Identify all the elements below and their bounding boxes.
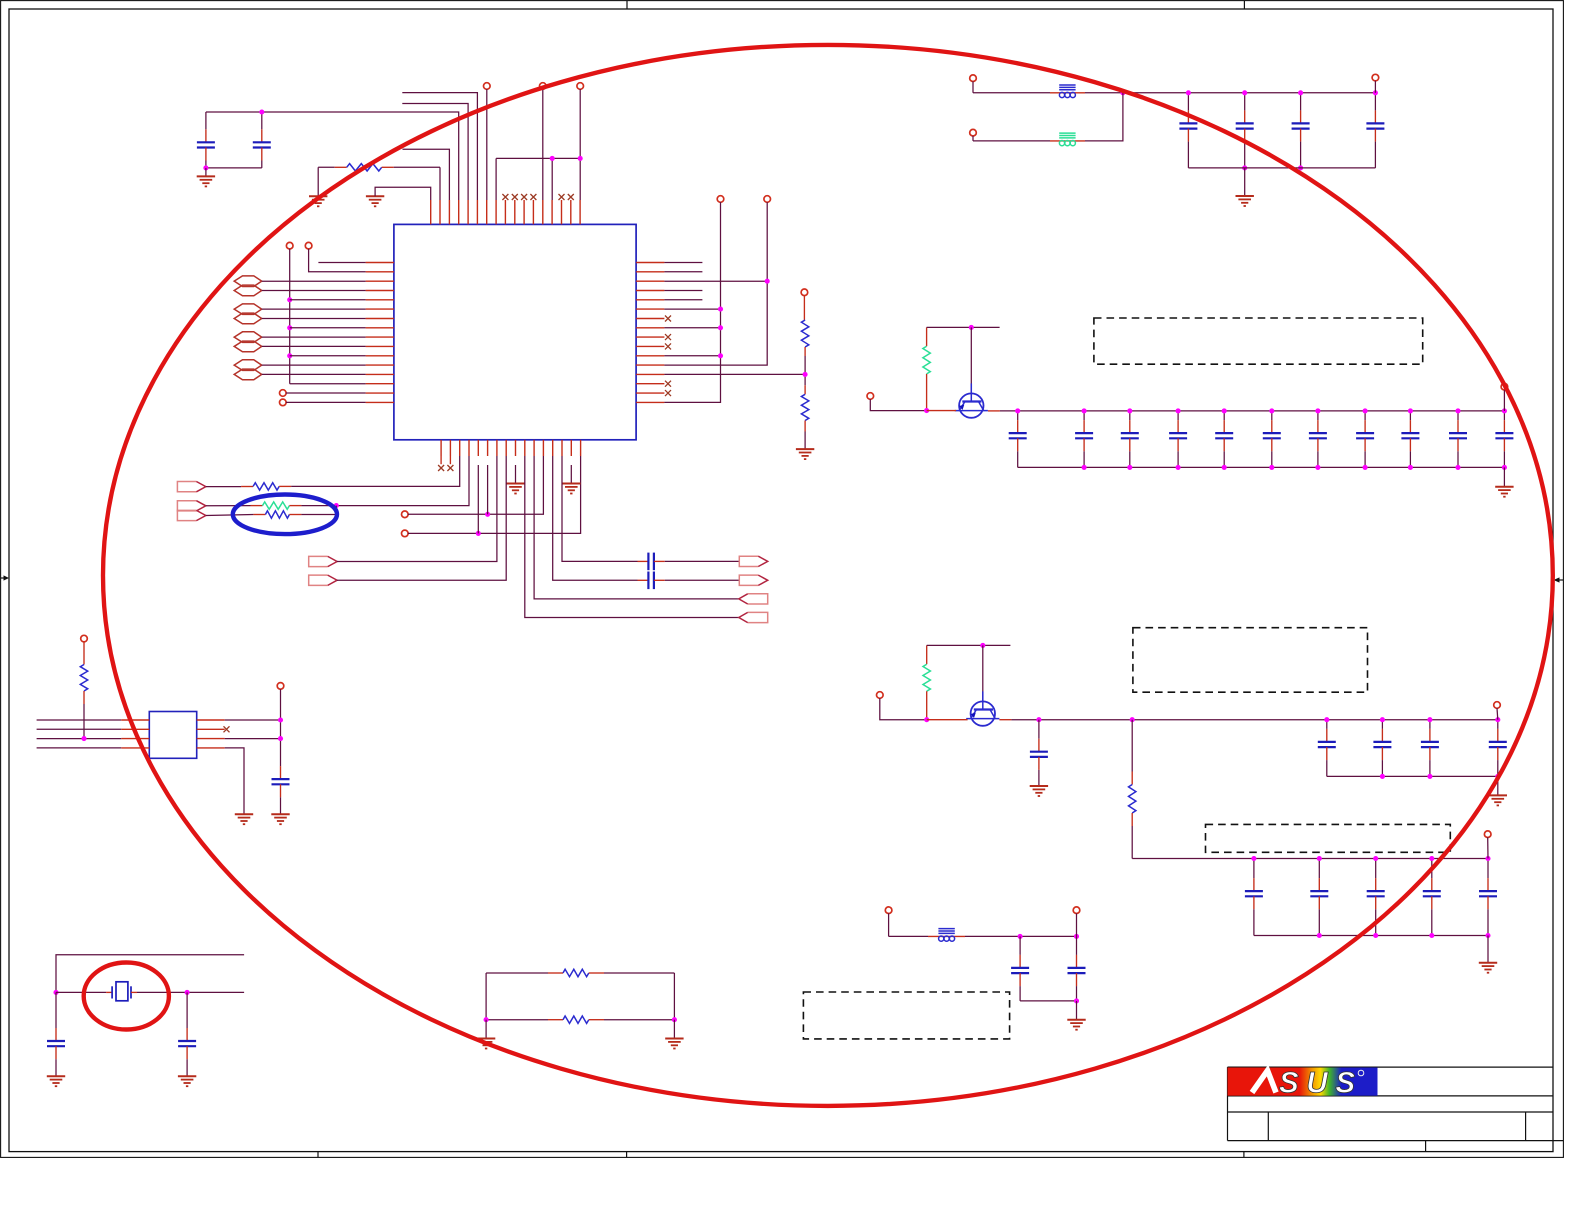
wire U1 left row0: [318, 262, 365, 264]
wire right row1 stub: [664, 271, 702, 273]
terminal P22 bus: [277, 683, 284, 779]
ground U1 pin B8: [506, 465, 524, 494]
top caps junctions: [1186, 90, 1378, 170]
junction Q2 base rail: [980, 643, 985, 648]
junction Q1 base rail: [969, 325, 974, 330]
dashed annotation box D: [803, 992, 1009, 1039]
rail2 junctions: [1324, 717, 1500, 722]
junction C1 bottom: [203, 165, 208, 170]
capacitor C2: [253, 112, 271, 168]
U2 right pins: [197, 720, 225, 748]
capacitor C34: [1068, 936, 1086, 1001]
hex connectors J1-J8 with wires: [234, 276, 365, 380]
wire right row4 stub: [664, 299, 702, 301]
junction crystal left: [53, 990, 58, 995]
terminal P17: [1372, 74, 1379, 93]
wire Q1 base vertical: [970, 327, 972, 393]
capacitor bank C5-C15: [1009, 411, 1514, 468]
big red highlight ellipse: [103, 45, 1553, 1106]
terminal P7 row15: [280, 399, 366, 406]
junction rowC pinB5: [485, 512, 490, 517]
left edge center arrow: [1, 575, 9, 580]
junction rowD pinB4: [476, 531, 481, 536]
U1 top pin no-connect X marks: [502, 194, 573, 200]
wire net A2 to U1 top pin5: [402, 104, 468, 201]
ground U1 pin B14: [562, 465, 580, 494]
wire rowE to pinB6: [337, 456, 497, 562]
terminal P13: [867, 393, 927, 411]
resistor R9: [1129, 720, 1136, 859]
junction P9 row2: [765, 279, 770, 284]
resistor R1: [318, 164, 440, 200]
wire top caps bottom rail: [1188, 167, 1375, 169]
wire loop left: [485, 973, 487, 1020]
junction row158 a: [550, 156, 555, 161]
U2 row2 X: [224, 726, 230, 732]
wire Q2 right lead: [999, 719, 1039, 721]
terminal P21: [81, 635, 88, 664]
ferrite bead FB2: [1059, 133, 1075, 146]
terminal P9 vertical: [664, 196, 770, 365]
U1 top pins: [431, 200, 580, 224]
ground C32: [178, 1076, 196, 1086]
resistor R12 bottom: [486, 1016, 674, 1023]
wire crystal top: [56, 955, 244, 993]
junction R5-R6: [334, 503, 339, 508]
capacitor C3 series: [638, 553, 740, 571]
U1 bottom X marks: [438, 456, 453, 471]
resistor R4 row: [206, 456, 460, 490]
junction C2 top: [259, 109, 264, 114]
terminal P18: [877, 692, 927, 720]
arrow connector A1: [177, 482, 205, 492]
wire row y158: [496, 158, 580, 200]
wire Q2 base vertical: [982, 645, 984, 701]
wire rail3: [1132, 858, 1488, 860]
U2 left wires: [37, 720, 150, 748]
dashed annotation box B: [1133, 628, 1368, 693]
junction C34 bottom: [1074, 998, 1079, 1003]
wire net A3 to U1 top pin3: [403, 149, 450, 200]
terminal P11 rowC: [402, 456, 544, 518]
wire top caps rail: [1188, 92, 1375, 94]
U1 bottom pins: [441, 440, 580, 456]
junction U2 bus row3: [278, 736, 283, 741]
wire row2 to P9 bus: [664, 280, 767, 282]
terminal P3: [577, 83, 584, 159]
ground at R1 left: [309, 167, 327, 206]
junction R10 row: [81, 736, 86, 741]
capacitor C33: [1011, 936, 1029, 1001]
capacitor C30: [272, 779, 290, 814]
wire bead3 row: [889, 935, 1077, 937]
junction loop left: [484, 1017, 489, 1022]
wire C1-C2 bottom: [206, 167, 262, 169]
wire row5 to P8 bus: [664, 308, 720, 310]
resistor R5 green row: [206, 456, 469, 509]
arrow connector AR2 rowF: [309, 575, 337, 585]
terminal P1 to U1 top pin7: [484, 83, 491, 200]
wire caps33 bottom: [1020, 1000, 1076, 1002]
wire bead1 row: [973, 92, 1188, 94]
resistor R11 top: [486, 969, 674, 976]
terminal P20: [1484, 831, 1491, 859]
junction loop right: [672, 1017, 677, 1022]
wire row10 to P8 bus: [664, 355, 720, 357]
wire bead2 row: [973, 93, 1123, 141]
terminal P23: [885, 907, 892, 937]
resistor R6 row: [206, 506, 336, 519]
IC U1 body: [394, 224, 636, 439]
ground U2 a: [235, 814, 253, 824]
ASUS logo: [1228, 1067, 1378, 1100]
right edge center arrow: [1554, 577, 1564, 582]
capacitor C20: [1030, 720, 1048, 786]
junction P8 row10: [718, 353, 723, 358]
zone tick bottom 2: [626, 1152, 628, 1158]
terminal P8 vertical: [664, 196, 723, 403]
resistor R10: [80, 665, 87, 739]
ground under C1: [197, 168, 215, 187]
wire Q1 top rail: [927, 326, 1000, 328]
junction crystal right: [185, 990, 190, 995]
caps2 bottom junctions: [1380, 774, 1501, 779]
wire bus to U1 row7: [290, 327, 366, 329]
red highlight ellipse on crystal: [84, 963, 169, 1030]
ground top caps: [1236, 168, 1254, 206]
arrow connector AO2: [739, 575, 767, 585]
wire bus to U1 row4: [290, 299, 366, 301]
wire U2 row3 to bus: [225, 738, 281, 740]
wire net A1 to U1 top pin6: [402, 93, 477, 200]
ground U2 b: [271, 814, 289, 824]
arrow connector AR1 rowE: [309, 556, 337, 566]
zone tick top 2: [1243, 1, 1245, 9]
junction P8 row5: [718, 307, 723, 312]
junction rail2 C20: [1036, 717, 1041, 722]
transistor Q2: [966, 691, 999, 725]
junction bus row4: [287, 297, 292, 302]
capacitors C16-C19: [1179, 93, 1384, 168]
junction row158 b: [578, 156, 583, 161]
wire pinB4 down: [477, 465, 479, 533]
capacitor C4 series: [638, 572, 740, 590]
wire cap bank rail bottom: [1018, 466, 1505, 468]
wire caps2 bottom rail: [1327, 775, 1498, 777]
capacitor C31: [47, 992, 65, 1076]
resistor R8 green: [923, 645, 930, 719]
ground C20: [1030, 786, 1048, 796]
junction Q1 emitter: [924, 408, 929, 413]
wire U2 row1 to bus: [225, 719, 281, 721]
terminal P12 rowD: [402, 456, 581, 537]
junction P8 row7: [718, 325, 723, 330]
terminal P2 to U1 top pin13: [540, 83, 547, 200]
resistor R2: [801, 320, 808, 347]
dashed annotation box C: [1206, 824, 1451, 852]
arrow connector AI2: [739, 612, 768, 622]
capacitor C1: [197, 112, 215, 168]
dashed annotation box A: [1094, 318, 1423, 364]
terminal P24: [1073, 907, 1080, 937]
capacitors C25-C29: [1245, 859, 1497, 936]
terminal P10: [801, 289, 808, 320]
junction bead3 b: [1074, 934, 1079, 939]
title block outline: [1228, 1067, 1564, 1152]
rail3 junctions: [1251, 856, 1490, 861]
wire cap bank rail top: [1018, 410, 1505, 412]
wire rail2: [1039, 719, 1498, 721]
junction bus row7: [287, 325, 292, 330]
wire pinB5 down: [487, 465, 489, 514]
terminal P6 row14: [280, 390, 366, 397]
blue highlight ellipse: [233, 495, 337, 535]
wire rowF to pinB7: [337, 456, 506, 580]
resistor R3: [801, 394, 808, 420]
ground rail3: [1479, 936, 1497, 973]
terminal P4 with bus: [286, 242, 365, 383]
terminal P15: [970, 75, 977, 93]
U1 left pins: [366, 263, 394, 403]
terminal P19: [1494, 702, 1501, 720]
ground under R3: [796, 421, 814, 460]
junction bus row10: [287, 353, 292, 358]
wire caps to U1 top pin4: [206, 112, 459, 200]
junction Q2 emitter: [924, 717, 929, 722]
wire rail3 bottom: [1254, 935, 1488, 937]
ground C31: [47, 1076, 65, 1086]
wire loop right: [673, 973, 675, 1020]
rail3 bottom junctions: [1317, 933, 1491, 938]
zone tick bottom 1: [317, 1152, 319, 1158]
crystal Y1: [56, 982, 244, 1001]
zone tick bottom 3: [1243, 1152, 1245, 1158]
resistor R7 green: [923, 327, 930, 410]
wire pinB12 to C4: [553, 456, 638, 580]
ground cap bank: [1495, 467, 1513, 496]
ferrite bead FB3: [938, 929, 954, 942]
junction bead3 a: [1018, 934, 1023, 939]
wire right row0 stub: [664, 262, 702, 264]
wire right row3 stub: [664, 290, 702, 292]
wire row7 to P8 bus: [664, 327, 720, 329]
wire bus to U1 row10: [290, 355, 366, 357]
capacitor C32: [178, 992, 196, 1076]
zone tick top 1: [626, 1, 628, 9]
IC U2 body: [149, 712, 196, 759]
wire row12 to divider: [664, 373, 805, 375]
wire pinB13 to C3: [562, 456, 638, 561]
transistor Q1: [955, 383, 988, 417]
ground loop right: [665, 1020, 683, 1049]
wire Q2 top rail: [927, 644, 1011, 646]
terminal P14: [1501, 383, 1508, 410]
arrow connector A3: [177, 510, 205, 520]
arrow connector A2: [177, 501, 205, 511]
ground caps2: [1489, 776, 1507, 805]
terminal P16: [970, 129, 977, 141]
wire R2-R3: [804, 347, 806, 394]
arrow connector AI1: [739, 594, 768, 604]
ground C34: [1067, 1001, 1085, 1030]
terminal P5: [305, 242, 365, 271]
wire Q1 left lead: [927, 410, 957, 412]
junction U2 bus row1: [278, 717, 283, 722]
cap bank junctions: [1015, 408, 1507, 470]
junction divider: [803, 372, 808, 377]
ferrite bead FB1: [1059, 85, 1075, 98]
wire pinB9 rowH: [525, 456, 739, 618]
capacitors C21-C24: [1318, 720, 1507, 777]
junction bead join: [1120, 90, 1125, 95]
junction rail2 R9: [1130, 717, 1135, 722]
U1 right pin X marks: [665, 316, 671, 397]
U1 right pins: [636, 263, 664, 403]
wire pinB10 rowG: [534, 456, 739, 599]
ground loop left: [477, 1020, 495, 1049]
wire Q2 left lead: [927, 719, 968, 721]
wire U2 row4 to ground: [225, 748, 244, 814]
wire Q1 right lead: [988, 410, 1018, 412]
ground mid with wire to U1 top pin1: [366, 187, 431, 206]
svg-text:SUS: SUS: [1279, 1067, 1356, 1100]
arrow connector AO1: [739, 556, 767, 566]
